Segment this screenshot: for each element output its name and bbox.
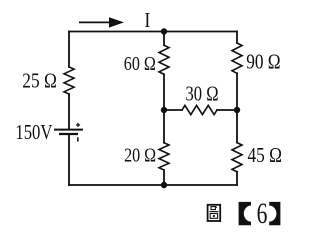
wire middle branch upper bbox=[163, 32, 165, 46]
svg-text:25 Ω: 25 Ω bbox=[22, 69, 57, 93]
svg-text:20 Ω: 20 Ω bbox=[124, 145, 156, 167]
caption left lenticular bracket bbox=[239, 202, 251, 225]
battery plus sign bbox=[76, 123, 80, 127]
resistor 45ohm bbox=[232, 143, 242, 172]
resistor 90ohm bbox=[232, 43, 242, 73]
resistor 20ohm bbox=[159, 143, 169, 170]
node bottom middle bbox=[161, 182, 167, 188]
wire right branch upper bbox=[236, 32, 238, 44]
caption right lenticular bracket bbox=[269, 202, 280, 225]
wire middle branch mid bbox=[163, 74, 165, 142]
wire right branch lower bbox=[236, 172, 238, 185]
wire left branch upper bbox=[68, 32, 70, 68]
resistor 30ohm bbox=[182, 105, 217, 114]
svg-text:60 Ω: 60 Ω bbox=[124, 53, 156, 75]
wire top bbox=[69, 31, 237, 33]
svg-text:30 Ω: 30 Ω bbox=[186, 81, 219, 105]
svg-text:90 Ω: 90 Ω bbox=[246, 50, 280, 74]
wire middle horizontal right bbox=[217, 109, 237, 111]
wire bottom bbox=[69, 184, 237, 186]
wire left branch lower bbox=[68, 134, 70, 185]
node middle left of 30ohm bbox=[161, 107, 167, 113]
current arrow head bbox=[109, 17, 124, 27]
svg-text:150V: 150V bbox=[15, 120, 52, 144]
wire middle branch lower bbox=[163, 170, 165, 185]
resistor 25ohm bbox=[64, 67, 74, 94]
wire right branch mid bbox=[236, 73, 238, 142]
wire middle horizontal left bbox=[164, 109, 182, 111]
current arrow line bbox=[79, 21, 111, 23]
battery V1 positive plate bbox=[54, 129, 83, 131]
svg-text:I: I bbox=[144, 8, 150, 32]
battery minus mark bbox=[77, 137, 79, 141]
svg-text:6: 6 bbox=[257, 198, 268, 230]
node top middle bbox=[161, 28, 167, 34]
resistor 60ohm bbox=[159, 45, 169, 74]
wire left branch mid bbox=[68, 94, 70, 129]
node middle right of 30ohm bbox=[234, 107, 240, 113]
battery V1 negative plate bbox=[59, 133, 78, 135]
caption hanzi TU (figure) bbox=[208, 205, 221, 221]
svg-text:45 Ω: 45 Ω bbox=[248, 143, 282, 167]
